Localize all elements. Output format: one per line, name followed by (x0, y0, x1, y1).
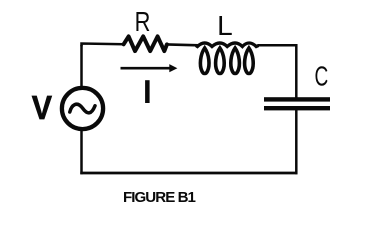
svg-text:L: L (217, 10, 233, 41)
label I (current) (145, 80, 150, 103)
svg-text:FIGURE B1: FIGURE B1 (123, 189, 196, 206)
capacitor C bottom plate (264, 106, 330, 110)
ac voltage source V circle (62, 88, 103, 129)
wire bottom-left up to source (82, 128, 83, 174)
ac source sine symbol (70, 104, 95, 113)
svg-text:C: C (315, 61, 329, 93)
wire resistor-to-inductor (167, 43, 200, 46)
svg-text:V: V (32, 89, 52, 126)
wire source-top to top-left corner (80, 45, 83, 88)
wire capacitor-to-bottom-right corner (295, 109, 298, 174)
wire inductor-to-corner and right wire down to capacitor (258, 45, 296, 98)
wire bottom (80, 172, 297, 175)
wire top-left segment (82, 44, 125, 47)
current arrow (121, 64, 178, 72)
capacitor C top plate (264, 97, 330, 101)
svg-text:R: R (135, 6, 151, 37)
inductor L (196, 43, 259, 74)
resistor R (124, 36, 167, 51)
